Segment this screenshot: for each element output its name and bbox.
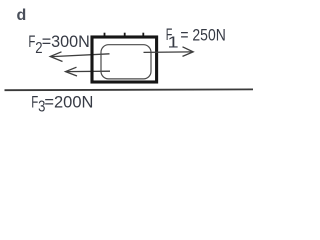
label F2=300N (28, 32, 89, 57)
svg-text:=300N: =300N (42, 32, 90, 51)
lower-left arrowhead (66, 67, 78, 76)
wire lower-left arrow line (67, 70, 110, 72)
label F1= 250N (166, 25, 226, 51)
svg-text:F: F (28, 32, 35, 51)
F2 arrowhead (50, 52, 62, 62)
wire F1 arrow line (144, 51, 192, 54)
tick 3 on block top (142, 33, 144, 38)
ground line (5, 88, 254, 91)
svg-text:= 250N: = 250N (180, 25, 225, 44)
tick 2 on block top (124, 33, 126, 38)
label F3=200N (31, 93, 93, 116)
tick 1 on block top (104, 33, 106, 38)
F1 arrowhead (183, 47, 194, 57)
svg-text:=200N: =200N (44, 93, 93, 112)
block outer rectangle (92, 37, 157, 82)
svg-text:F: F (31, 93, 38, 112)
svg-text:d: d (17, 7, 27, 24)
svg-text:1: 1 (168, 33, 179, 51)
wire F2 upper arrow line (52, 54, 110, 57)
inner rounded rectangle (101, 45, 151, 79)
